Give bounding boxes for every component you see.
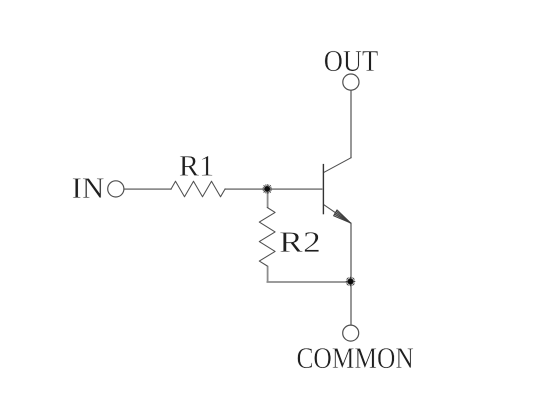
svg-text:R1: R1 bbox=[179, 150, 214, 183]
svg-text:R2: R2 bbox=[279, 226, 321, 259]
svg-text:OUT: OUT bbox=[324, 44, 378, 78]
svg-text:COMMON: COMMON bbox=[296, 342, 413, 375]
svg-text:IN: IN bbox=[72, 172, 105, 205]
